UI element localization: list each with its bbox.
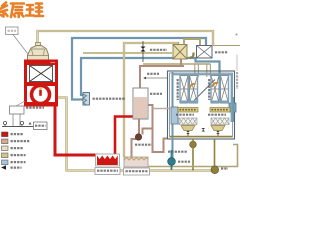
HT generator chamber (right) — [211, 76, 229, 104]
diagonal transfer line — [194, 80, 215, 101]
low-pressure solution pump (dark) — [135, 134, 141, 140]
olive bottom piping — [148, 145, 238, 167]
HP solution pump — [190, 141, 197, 148]
wire: tan from tower right going down x=63 to bottom line — [57, 98, 212, 171]
wire: blue line 1 (y=38) — [72, 38, 206, 100]
valve on line x=143 — [142, 41, 144, 62]
solution pump bottom right — [211, 166, 219, 174]
wire: red from mixer bottom to HT heat exchanger top — [115, 117, 133, 157]
low-temp generator (tan X box) — [173, 45, 187, 60]
evaporator/absorber chamber (left) — [180, 76, 198, 104]
unit outer frame — [168, 71, 235, 139]
white box under tower + gauges — [16, 101, 25, 106]
condenser (white X box) — [197, 46, 213, 59]
thin line to right edge — [213, 45, 240, 47]
small valve between funnels — [202, 128, 206, 132]
X box in tower — [30, 66, 53, 82]
原 — [11, 4, 24, 18]
unit top nubs — [195, 64, 199, 77]
blue water loop inside shell — [172, 75, 232, 123]
wire: pink pump to LT heat exchanger — [132, 139, 137, 157]
orange spray arrows — [190, 84, 196, 88]
olive line inside bottom — [170, 136, 232, 138]
冷水出口 label — [147, 73, 159, 75]
fan ring — [32, 86, 50, 104]
MIXER box — [133, 88, 148, 119]
vertical text labels (smudges) — [177, 79, 179, 100]
HT heat exchanger (red) — [96, 154, 120, 166]
tower body — [26, 61, 57, 105]
liquid strips at chamber bottoms — [178, 108, 198, 113]
blue tube headers on chamber columns — [180, 76, 229, 104]
wire: tan bracket generator to condenser — [184, 39, 200, 45]
blue pair ends: bellows device — [83, 93, 90, 106]
wire: tan vapor line dome to condenser top — [38, 31, 214, 46]
dome — [36, 43, 41, 47]
blue header box right — [229, 103, 236, 112]
wire: tan line y=53 into low-temp generator — [83, 52, 172, 54]
X-cell rows — [179, 118, 229, 125]
blue chilled-water vertical inside left — [172, 72, 174, 158]
blue water box left — [171, 107, 178, 124]
label 凝縮器 — [215, 51, 228, 53]
理 — [26, 4, 43, 17]
LEGEND — [1, 132, 30, 170]
funnel right — [211, 126, 225, 131]
funnel stubs — [188, 134, 218, 138]
LT heat exchanger (tan) — [124, 157, 148, 167]
fuel label box — [34, 122, 48, 130]
right outside vertical label 冷水入口 — [236, 72, 238, 89]
wire: blue line 2 (y=58) — [81, 58, 220, 95]
nozzle icon — [190, 53, 194, 58]
wire: thin leader 冷水出口 — [146, 77, 167, 79]
labels under chambers — [176, 114, 194, 116]
fan label box top-left — [6, 27, 19, 35]
wire: tan line y=43 from x=124 to generator, long vertical down — [124, 43, 178, 157]
wire: dilute solution (pink) y=65 to mixer — [140, 66, 184, 88]
wire: pink pump right loop into unit — [143, 129, 168, 153]
funnel left — [181, 126, 195, 131]
wire: pink from generator bottom down-left along y=63? (merged above) — [180, 59, 182, 66]
label 低温再生器 — [150, 49, 167, 51]
wire: red main from tower down and right to HT heat exchanger — [55, 88, 98, 155]
tiny label — [135, 144, 152, 146]
partial 冷 — [0, 3, 8, 17]
leader line from label to dome — [13, 35, 28, 55]
refrigerant pump (teal) — [171, 150, 173, 170]
title 制冷原理 (orange, clipped at left) — [0, 3, 43, 18]
wire: pink mixer bottom to solution pump — [138, 119, 140, 134]
tower label — [26, 107, 44, 109]
wire: tan line y=64 from valve to unit nubs — [143, 63, 211, 65]
